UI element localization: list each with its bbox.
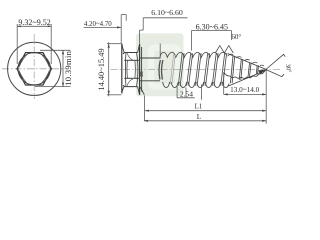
dim 14.40~15.69 xyxy=(107,42,122,96)
inner circle xyxy=(18,53,50,85)
taper coils xyxy=(230,56,258,83)
dim L xyxy=(144,120,266,122)
watermark logo xyxy=(136,33,184,96)
svg-text:L1: L1 xyxy=(195,104,203,111)
first partial thread blob xyxy=(159,60,163,80)
dim 2.54 xyxy=(177,85,202,100)
shank lines xyxy=(140,58,160,81)
svg-text:14.40~15.49: 14.40~15.49 xyxy=(97,48,106,90)
svg-text:4.20~4.70: 4.20~4.70 xyxy=(84,21,112,28)
flange flare to washer face xyxy=(138,44,140,95)
dim 4.20~4.70 xyxy=(84,15,127,44)
tip wedge xyxy=(258,70,266,75)
thread flank pairs xyxy=(178,53,226,86)
dim 13.0~14.0 xyxy=(224,73,267,94)
svg-text:60°: 60° xyxy=(231,33,241,41)
svg-text:2.54: 2.54 xyxy=(180,90,193,99)
hex profile xyxy=(123,53,139,87)
dim 9.32~9.52 xyxy=(17,24,51,64)
30 deg leader lines xyxy=(266,54,285,69)
axis centerline xyxy=(111,68,282,70)
thread coils full section xyxy=(141,52,229,87)
svg-text:9.32~9.52: 9.32~9.52 xyxy=(18,18,50,27)
faint mid flanks xyxy=(170,54,175,84)
hexagon xyxy=(17,53,52,85)
washer face rim xyxy=(139,44,141,95)
dim 10.39min xyxy=(35,50,71,86)
svg-text:6.10~6.60: 6.10~6.60 xyxy=(151,8,183,17)
head cone edges xyxy=(122,44,124,94)
centerline horizontal xyxy=(2,68,66,70)
svg-text:L: L xyxy=(197,113,201,121)
runout mark under head xyxy=(141,72,143,77)
60 deg angle legs xyxy=(215,46,233,53)
drill point taper xyxy=(224,54,286,87)
washer face second line xyxy=(141,47,143,92)
runout diagonal bottom right of head xyxy=(140,87,144,95)
dim L1 xyxy=(145,96,267,121)
dim 6.10~6.60 xyxy=(140,18,188,59)
svg-text:13.0~14.0: 13.0~14.0 xyxy=(230,86,259,94)
taper top crest bumps xyxy=(228,54,264,66)
svg-text:30°: 30° xyxy=(284,63,293,73)
flange circle xyxy=(8,42,61,95)
svg-text:10.39min: 10.39min xyxy=(63,50,73,86)
centerline vertical xyxy=(33,34,35,99)
dim 6.30~6.45 xyxy=(192,31,232,51)
hex chamfer arcs xyxy=(19,55,49,83)
tip extension line xyxy=(265,70,267,124)
head top face line xyxy=(121,44,123,94)
svg-text:6.30~6.45: 6.30~6.45 xyxy=(196,22,228,31)
drill flute wavy line xyxy=(224,70,266,79)
